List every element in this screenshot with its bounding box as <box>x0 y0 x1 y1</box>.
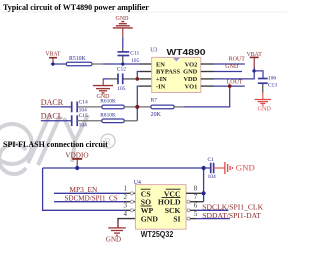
wire ROUT <box>214 63 245 65</box>
svg-text:R610K: R610K <box>100 99 116 105</box>
svg-text:WT4890: WT4890 <box>167 48 207 57</box>
IC U3 WT4890 <box>150 48 206 93</box>
wire R5 to chip EN <box>92 63 103 65</box>
svg-text:8: 8 <box>194 185 198 193</box>
wire -IN down to R6/R7 node and R8 <box>137 86 141 121</box>
wire SDCLK pin6 <box>190 209 196 211</box>
svg-text:Typical circuit of WT4890 powe: Typical circuit of WT4890 power amplifie… <box>3 3 149 12</box>
svg-text:SPI-FLASH connection circuit: SPI-FLASH connection circuit <box>3 140 108 149</box>
svg-text:R7: R7 <box>151 98 158 104</box>
svg-text:GND: GND <box>106 236 121 244</box>
junction node below VBAT <box>51 62 56 67</box>
svg-text:DACR: DACR <box>41 98 64 107</box>
svg-text:GND: GND <box>183 69 198 76</box>
wire C12 left to ground <box>103 78 109 80</box>
wire SDCMD to SO pin2 <box>54 201 126 203</box>
wire C13 to ground <box>262 83 264 93</box>
svg-text:-IN: -IN <box>156 83 166 90</box>
svg-text:GND: GND <box>225 64 239 70</box>
wire R7 to LOUT node <box>174 106 184 108</box>
pin stub VO2 <box>201 63 214 65</box>
junction node C1/rail <box>202 166 206 170</box>
capacitor C13 <box>258 79 268 84</box>
wire rail down left side to WP pin3 <box>43 168 126 210</box>
watermark logo <box>0 114 115 174</box>
resistor R6 <box>102 105 125 109</box>
pin stub WP <box>126 209 136 211</box>
svg-text:GND: GND <box>257 106 271 113</box>
wire VDD to VBAT node <box>214 67 254 79</box>
junction node below C11 <box>121 62 126 67</box>
svg-text:105: 105 <box>131 58 140 64</box>
svg-text:VO2: VO2 <box>185 61 198 68</box>
resistor R7 <box>151 105 174 109</box>
ground symbol right of C1 (rotated) <box>225 162 233 174</box>
wire GND to C11 <box>122 37 124 48</box>
pin stub +IN <box>140 78 152 80</box>
wire LOUT <box>214 85 245 87</box>
junction node VBAT/VDD/C13 <box>252 69 257 74</box>
svg-text:SDDAT/SPI1-DAT: SDDAT/SPI1-DAT <box>202 211 261 220</box>
svg-text:U3: U3 <box>150 48 157 54</box>
svg-text:+IN: +IN <box>156 76 167 83</box>
svg-text:GND: GND <box>116 16 130 22</box>
ground symbol above C11 (inverted) <box>113 16 133 37</box>
capacitor C11 <box>118 52 130 56</box>
svg-text:SI: SI <box>173 215 180 224</box>
svg-text:ROUT: ROUT <box>229 57 246 63</box>
svg-text:WT25Q32: WT25Q32 <box>141 230 174 239</box>
svg-text:105: 105 <box>117 86 126 92</box>
junction node pin8 <box>202 191 206 195</box>
svg-text:U4: U4 <box>134 180 141 186</box>
wire C12 right to +IN junction <box>123 78 140 80</box>
svg-text:C12: C12 <box>117 66 126 72</box>
junction node LOUT/R7 <box>228 84 232 88</box>
capacitor C1 <box>211 163 214 174</box>
ground symbol below C13 <box>255 100 271 106</box>
wire R8 to -IN vertical <box>124 120 137 122</box>
pin stub VO1 <box>201 85 214 87</box>
wire DACL to C15 <box>41 120 72 122</box>
svg-text:R810K: R810K <box>100 113 116 119</box>
wire HOLD pin7 to rail vertical <box>190 201 204 203</box>
pin stub BYPASS <box>140 71 152 73</box>
svg-text:106: 106 <box>268 75 277 81</box>
IC U4 WT25Q32 <box>134 180 186 229</box>
svg-text:7: 7 <box>194 193 198 201</box>
capacitor C14 <box>72 102 78 113</box>
resistor R5 <box>66 62 92 66</box>
wire R6 to node to R7 <box>124 106 151 108</box>
wire VBAT to R5 <box>53 63 66 65</box>
svg-text:5: 5 <box>194 210 198 218</box>
svg-text:C1: C1 <box>208 157 215 163</box>
wire C14 to R6 <box>77 106 102 108</box>
svg-text:C11: C11 <box>130 50 139 56</box>
VDDIO rail wire <box>43 167 211 169</box>
ground symbol below pin4 <box>108 228 126 236</box>
svg-text:GND: GND <box>236 162 255 172</box>
wire C15 to R8 <box>77 120 102 122</box>
pin stub VDD <box>201 78 214 80</box>
wire SDDAT pin5 <box>190 218 196 220</box>
wire C1 to ground <box>214 167 225 169</box>
svg-text:3: 3 <box>124 202 128 210</box>
svg-text:2: 2 <box>124 193 128 201</box>
wire C11 to junction <box>122 56 124 65</box>
svg-text:6: 6 <box>194 202 198 210</box>
pin stub GND <box>201 71 214 73</box>
svg-text:BYPASS: BYPASS <box>156 69 180 76</box>
pin marker circles U4 <box>130 192 133 195</box>
vertical C1 node to pins 8,7 <box>203 168 205 202</box>
power port VBAT (left) <box>45 51 61 64</box>
svg-text:MP3_EN: MP3_EN <box>69 185 98 194</box>
svg-text:VDD: VDD <box>183 76 197 83</box>
wire VCC pin8 to rail <box>186 192 204 194</box>
svg-text:C14: C14 <box>79 100 88 106</box>
svg-text:C15: C15 <box>79 113 88 119</box>
svg-text:VO1: VO1 <box>185 83 198 90</box>
capacitor C12 <box>118 73 123 84</box>
svg-text:104: 104 <box>79 122 88 128</box>
svg-text:R510K: R510K <box>69 56 87 62</box>
svg-text:DACL: DACL <box>41 111 63 120</box>
pin stub -IN <box>140 85 152 87</box>
junction node R6/R7/-IN <box>135 105 139 109</box>
junction node VDDIO <box>75 166 79 170</box>
wire GND net <box>214 71 242 73</box>
pin stub EN <box>140 63 152 65</box>
wire MP3_EN to CS pin1 <box>54 192 126 194</box>
resistor R8 <box>102 119 125 123</box>
junction node BYPASS/+IN <box>136 77 140 81</box>
svg-text:20K: 20K <box>151 112 162 118</box>
svg-text:VBAT: VBAT <box>45 51 61 57</box>
svg-text:EN: EN <box>156 61 165 68</box>
wire BYPASS to +IN junction <box>137 72 141 79</box>
svg-text:GND: GND <box>141 215 159 224</box>
svg-text:C13: C13 <box>268 82 277 88</box>
svg-text:1: 1 <box>124 185 128 193</box>
wire node to C13 <box>254 71 263 79</box>
faint divider line <box>2 11 287 13</box>
wire DACR to C14 <box>41 106 72 108</box>
svg-text:104: 104 <box>208 174 217 180</box>
svg-text:4: 4 <box>124 210 128 218</box>
ground symbol below C12 <box>93 86 113 93</box>
capacitor C15 <box>72 115 78 126</box>
wire GND pin4 <box>118 219 136 228</box>
